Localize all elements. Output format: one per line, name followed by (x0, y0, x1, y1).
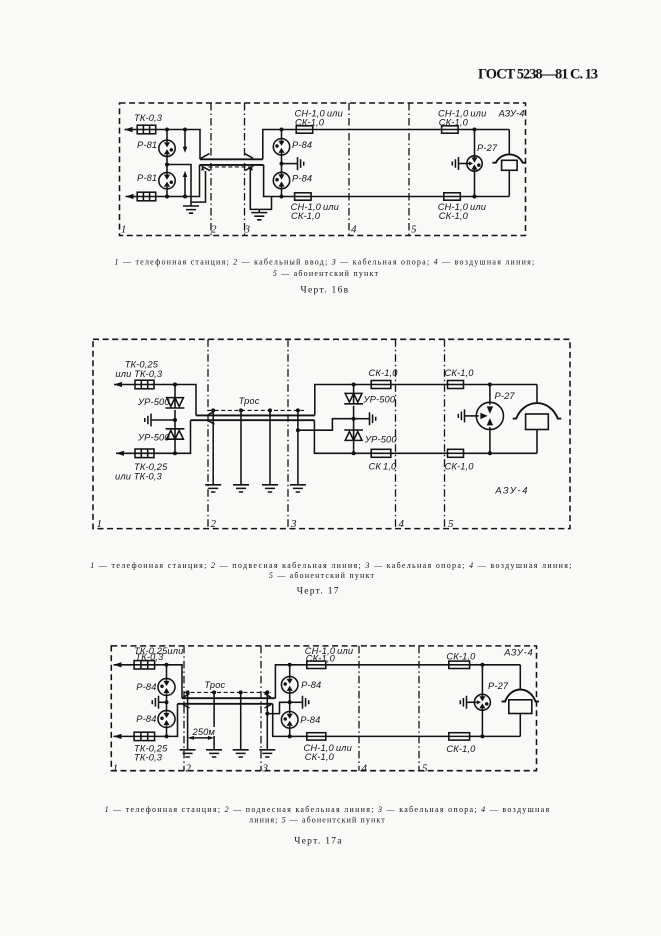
fuse СН-1,0/СК-1,0 (bottom, pole) (307, 733, 326, 740)
ground (pole, pointing right) (303, 696, 309, 709)
wire: conductor b drop to pole bottom wire (273, 704, 307, 737)
svg-text:Черт. 16в: Черт. 16в (301, 286, 350, 296)
fuse ТК-0,3 (top) (137, 125, 156, 134)
fuse СК-1,0 (top, subscriber) (448, 381, 464, 389)
node: pole bottom wire / Р-84 tap (288, 734, 292, 738)
fuse ТК-0,25/ТК-0,3 (bottom) (135, 449, 154, 458)
wire: overhead top wire (section 4) (391, 384, 448, 386)
node: top wire / Р-84 tap (280, 128, 284, 132)
diagram 1 section divider 2/3 (244, 103, 246, 236)
wire: overhead top wire (section 4) (326, 664, 449, 666)
svg-text:4: 4 (351, 224, 357, 236)
svg-text:СК-1,0: СК-1,0 (439, 211, 469, 221)
messenger suspension drop 1 (212, 410, 214, 484)
arrow stub down (to cable conductor) (184, 130, 186, 148)
cable conductor a (182, 697, 275, 699)
node: Р-84 midpoint (station) (165, 700, 169, 704)
cable sheath flare ticks, right end (245, 154, 254, 171)
svg-text:5: 5 (448, 518, 454, 530)
node: Р-84 midpoint (pole) (288, 700, 292, 704)
svg-text:Р-81: Р-81 (137, 140, 157, 150)
svg-text:Черт. 17: Черт. 17 (297, 587, 340, 597)
diagram 3 dashed boundary (sections 1-5) (111, 646, 536, 771)
cable conductor b (178, 703, 273, 705)
node: messenger hanger 3 (268, 408, 272, 412)
svg-text:СК-1,0: СК-1,0 (445, 462, 475, 472)
svg-text:4: 4 (399, 518, 405, 530)
svg-text:1 — телефонная станция; 2 — ка: 1 — телефонная станция; 2 — кабельный вв… (115, 258, 536, 267)
svg-text:СК-1,0: СК-1,0 (446, 652, 476, 662)
diagram 3 section divider 1/2 (183, 646, 185, 771)
arrester Р-27 (subscriber) (476, 402, 503, 429)
node: messenger hanger 4 (265, 690, 269, 694)
svg-text:СК-1,0: СК-1,0 (305, 752, 335, 762)
wire: conductor a rise to overhead top wire (263, 130, 297, 160)
telephone set (subscriber) (492, 154, 526, 162)
wire: bottom pair conductor, station side, with line arrow (116, 452, 135, 454)
fuse СН-1,0/СК-1,0 (top, pole) (296, 126, 313, 133)
node: pole top wire / УР-500 tap (352, 383, 356, 387)
node: top conductor / УР-500 tap (173, 383, 177, 387)
diagram 1 section divider 1/2 (210, 103, 212, 236)
wire: telephone set drop top (536, 385, 538, 404)
ground (drop 2) (233, 485, 249, 492)
wire: conductor b drop to overhead bottom wire (264, 165, 295, 197)
messenger suspension drop 4 (266, 692, 268, 749)
wire: УР-500 midpoint to earth (151, 419, 175, 421)
arrester Р-84 (upper, pole) (273, 139, 289, 155)
arrester УР-500 (pole, upper) (353, 385, 355, 394)
svg-text:Р-84: Р-84 (300, 715, 320, 725)
ground (Р-27, pointing left) (458, 409, 464, 422)
wire: arrester midpoint to earth (167, 165, 191, 207)
svg-text:ГОСТ 5238—81 С. 13: ГОСТ 5238—81 С. 13 (478, 67, 598, 83)
ground (cable sheath, pole side) (251, 213, 267, 220)
arrester УР-500 (upper) (174, 385, 176, 398)
wire: pole midpoint to earth bars (290, 701, 303, 703)
svg-text:Р-81: Р-81 (137, 173, 157, 183)
svg-text:ТК-0,25: ТК-0,25 (125, 360, 159, 370)
svg-text:УР-500: УР-500 (363, 395, 396, 405)
svg-text:Р-84: Р-84 (301, 680, 321, 690)
svg-text:Р-84: Р-84 (136, 714, 156, 724)
node: top wire / Р-27 tap (473, 128, 477, 132)
arrester Р-81 (lower) (159, 173, 175, 189)
node: bottom wire / Р-27 tap (488, 451, 492, 455)
wire: top pair conductor a, station side, with line arrow (125, 129, 138, 131)
node: bond to drop 4 (265, 712, 269, 716)
wire: top conductor to cable link (154, 385, 196, 416)
svg-text:АЗУ-4: АЗУ-4 (498, 109, 525, 119)
svg-text:Р-84: Р-84 (292, 174, 312, 184)
wire: conductor a rise to pole top wire (275, 665, 306, 698)
node: top conductor / Р-84 tap (165, 663, 169, 667)
node: midpoint of Р-84 pair (280, 162, 284, 166)
wire: bottom wire into subscriber unit (470, 735, 521, 737)
svg-text:3: 3 (244, 224, 251, 236)
ground (drop 2) (206, 750, 222, 757)
svg-text:Р-84: Р-84 (136, 682, 156, 692)
node: pole УР-500 midpoint (352, 417, 356, 421)
fuse СН-1,0/СК-1,0 (top, subscriber) (442, 126, 459, 133)
arrester Р-84 (station, lower) (158, 711, 175, 728)
dimension 250м between drops 1 and 2 (190, 737, 213, 739)
node: bottom conductor / Р-84 tap (165, 734, 169, 738)
fuse СК-1,0 (bottom, subscriber) (449, 733, 470, 740)
node: pole bottom wire / УР-500 tap (352, 451, 356, 455)
cable sheath flare ticks (209, 411, 215, 424)
svg-text:Р-27: Р-27 (495, 391, 516, 401)
svg-text:АЗУ-4: АЗУ-4 (494, 486, 529, 496)
svg-text:СК-1,0: СК-1,0 (439, 118, 469, 128)
svg-text:5: 5 (422, 763, 428, 775)
svg-text:УР-500: УР-500 (137, 433, 170, 443)
svg-text:или ТК-0,3: или ТК-0,3 (115, 369, 163, 379)
telephone set (subscriber) (502, 690, 539, 702)
arrester Р-84 (pole, lower) (281, 712, 298, 729)
wire: telephone set drop bottom (508, 170, 510, 196)
arrow stub up (to cable conductor) (184, 177, 186, 197)
svg-text:1: 1 (97, 518, 103, 530)
node: midpoint of Р-81 pair (165, 163, 169, 167)
svg-text:Р-27: Р-27 (477, 143, 498, 153)
cable sheath flare ticks (183, 694, 271, 708)
wire: bottom pair conductor, station side, with line arrow (114, 735, 135, 737)
wire: bottom wire into subscriber unit (464, 452, 538, 454)
wire: telephone set drop top (519, 665, 521, 690)
cable conductor b (191, 419, 315, 421)
wire: messenger bond to pole arrester midpoint (298, 419, 354, 431)
wire: top pair conductor, station side, with line arrow (114, 384, 135, 386)
fuse СК-1,0 (top, subscriber) (449, 661, 470, 668)
wire: bottom wire into subscriber unit (460, 196, 509, 198)
fuse ТК-0,25/ТК-0,3 (top) (135, 380, 154, 389)
ground (station, pointing left) (152, 696, 158, 709)
node: stub tap bottom (183, 195, 187, 199)
svg-text:4: 4 (362, 763, 368, 775)
diagram 2 section divider 2/3 (287, 339, 289, 528)
wire: bottom pair conductor b, station side, with line arrow (126, 196, 138, 198)
svg-text:УР-500: УР-500 (364, 435, 397, 445)
fuse СК-1,0 (bottom, subscriber) (448, 449, 464, 457)
arrester УР-500 (pole, lower) (353, 419, 355, 432)
arrester Р-84 (lower, pole) (273, 172, 289, 188)
diagram 1 section divider 4/5 (408, 103, 410, 236)
wire: top conductor to cable link (155, 665, 182, 698)
node: messenger hanger 1 (186, 690, 190, 694)
node: messenger hanger 1 (211, 408, 215, 412)
svg-text:или ТК-0,3: или ТК-0,3 (115, 472, 163, 482)
svg-text:3: 3 (290, 518, 297, 530)
svg-text:линия; 5 — абонентский пункт: линия; 5 — абонентский пункт (249, 816, 386, 825)
ground (pole arresters, pointing right) (298, 157, 304, 170)
diagram 2 section divider 1/2 (207, 339, 209, 528)
diagram 1 section divider 3/4 (348, 103, 350, 236)
svg-text:Трос: Трос (239, 396, 260, 406)
node: top wire / Р-27 tap (480, 663, 484, 667)
ground (pole, pointing right) (370, 412, 376, 425)
ground (drop 4) (290, 485, 306, 492)
svg-text:Черт. 17а: Черт. 17а (294, 837, 343, 847)
wire: top wire into subscriber unit (464, 384, 538, 386)
node: bottom wire / Р-27 tap (480, 734, 484, 738)
svg-text:СК-1,0: СК-1,0 (446, 744, 476, 754)
node: УР-500 midpoint (173, 418, 177, 422)
diagram 1 dashed boundary (sections 1-5) (120, 103, 526, 236)
node: bottom wire / Р-27 tap (473, 195, 477, 199)
svg-text:1 — телефонная станция; 2 — по: 1 — телефонная станция; 2 — подвесная ка… (90, 561, 573, 570)
wire: telephone set drop bottom (536, 430, 538, 454)
node: messenger bond tap (296, 428, 300, 432)
wire: overhead bottom wire (section 4) (326, 735, 449, 737)
wire: top wire into subscriber unit (458, 129, 509, 131)
ground (station cable entry, left) (183, 206, 199, 213)
cable conductor b (200, 164, 264, 166)
cable sheath flare ticks, left end (201, 154, 210, 171)
fuse СК-1,0 (bottom, pole) (371, 449, 391, 457)
svg-text:5: 5 (411, 224, 417, 236)
node: messenger hanger 3 (239, 690, 243, 694)
fuse СН-1,0/СК-1,0 (top, pole) (307, 661, 326, 668)
svg-text:5 — абонентский пункт: 5 — абонентский пункт (269, 571, 375, 580)
diagram 2 dashed boundary (sections 1-5) (93, 339, 570, 528)
ground (drop 4) (259, 750, 275, 757)
diagram 3 section divider 4/5 (418, 646, 420, 771)
wire: top wire into subscriber unit (470, 664, 521, 666)
messenger suspension drop 3 (240, 692, 242, 749)
svg-text:СК-1,0: СК-1,0 (306, 653, 336, 663)
wire: bottom conductor from fuse to cable entry (156, 165, 200, 197)
wire: Р-27 to earth (459, 163, 467, 165)
telephone set (subscriber) (513, 403, 562, 419)
svg-text:Р-84: Р-84 (292, 140, 312, 150)
wire: top pair conductor, station side, with line arrow (114, 664, 135, 666)
arrester Р-84 (pole, upper) (281, 677, 298, 694)
fuse СН-1,0/СК-1,0 (bottom, pole) (295, 193, 312, 200)
node: messenger hanger 2 (212, 690, 216, 694)
wire: midpoint to earth (159, 701, 167, 703)
arrester Р-84 (station, upper) (158, 679, 175, 696)
fuse ТК-0,25/ТК-0,3 (bottom) (134, 732, 155, 740)
wire: pole midpoint to earth (354, 418, 370, 420)
ground (Р-27, pointing left) (460, 696, 466, 709)
svg-text:2: 2 (211, 518, 217, 530)
wire: Р-27 to earth (467, 701, 475, 703)
svg-text:1 — телефонная станция; 2 — по: 1 — телефонная станция; 2 — подвесная ка… (105, 805, 551, 814)
wire: conductor a rise to pole top wire (315, 385, 371, 416)
wire: bottom conductor to cable link (154, 420, 191, 453)
node: bottom wire / Р-84 tap (280, 195, 284, 199)
svg-text:2: 2 (186, 763, 192, 775)
svg-text:СК-1,0: СК-1,0 (445, 368, 475, 378)
svg-text:ТК-0,25: ТК-0,25 (134, 462, 168, 472)
messenger suspension drop 2 (213, 692, 215, 749)
messenger suspension drop 2 (240, 410, 242, 484)
wire: overhead line top (section 4) (313, 129, 442, 131)
arrester Р-27 (subscriber) (467, 156, 482, 171)
wire: overhead line bottom (section 4) (311, 196, 444, 198)
wire: pole midpoint bond to messenger drop (267, 702, 289, 713)
node: pole top wire / Р-84 tap (288, 663, 292, 667)
diagram 2 section divider 3/4 (395, 339, 397, 528)
wire: overhead bottom wire (section 4) (391, 452, 448, 454)
wire: conductor b drop to pole bottom wire (314, 420, 371, 453)
node: bottom conductor / arrester tap (165, 195, 169, 199)
svg-text:АЗУ-4: АЗУ-4 (503, 648, 533, 658)
svg-text:СК-1,0: СК-1,0 (369, 368, 399, 378)
svg-text:УР-500: УР-500 (137, 397, 170, 407)
wire: telephone set drop top (508, 130, 510, 155)
svg-text:Трос: Трос (204, 680, 225, 690)
svg-text:Р-27: Р-27 (488, 681, 509, 691)
svg-text:СК 1,0: СК 1,0 (369, 462, 398, 472)
node: messenger hanger 2 (239, 408, 243, 412)
wire: Р-27 to earth (465, 415, 477, 417)
node: stub tap top (183, 128, 187, 132)
suspended cable: messenger wire Трос (dashed) (184, 691, 271, 693)
ground (Р-27, pointing left) (452, 157, 458, 170)
arrester Р-81 (upper) (159, 140, 175, 156)
cable conductor a (196, 414, 315, 416)
ground (station, pointing left) (145, 414, 151, 427)
svg-text:1: 1 (113, 763, 119, 775)
wire: top conductor from fuse to cable entry (156, 130, 200, 160)
fuse СК-1,0 (top, pole) (371, 381, 391, 389)
fuse ТК-0,3 (bottom) (137, 192, 156, 201)
diagram 2 section divider 4/5 (444, 339, 446, 528)
svg-text:2: 2 (211, 224, 217, 236)
wire: Р-84 midpoint to earth bars (282, 163, 298, 165)
wire: bottom conductor to cable link (155, 704, 178, 737)
ground (drop 3) (233, 750, 249, 757)
svg-text:3: 3 (262, 763, 269, 775)
messenger suspension drop 4 (297, 410, 299, 484)
node: top wire / Р-27 tap (488, 383, 492, 387)
ground (drop 3) (262, 485, 278, 492)
svg-text:СК-1,0: СК-1,0 (291, 211, 321, 221)
wire: telephone set drop bottom (519, 714, 521, 737)
node: top conductor / arrester tap (165, 128, 169, 132)
wire: cable sheath bond to earth (station side) (191, 171, 206, 202)
suspended cable: messenger wire Трос (dashed) (208, 409, 304, 411)
cable sheath (dashed) along pair (209, 166, 251, 168)
node: bottom conductor / УР-500 tap (173, 451, 177, 455)
arrester УР-500 (lower) (174, 420, 176, 430)
ground (drop 1) (180, 750, 196, 757)
dimension label 250м (190, 727, 216, 736)
messenger suspension drop 1 (187, 692, 189, 749)
diagram 3 section divider 2/3 (260, 646, 262, 771)
node: messenger hanger 4 (296, 408, 300, 412)
svg-text:5 — абонентский пункт: 5 — абонентский пункт (273, 269, 379, 278)
fuse ТК-0,25/ТК-0,3 (top) (134, 661, 155, 669)
wire: cable sheath to earth (right of pole) (250, 167, 271, 213)
svg-text:ТК-0,3: ТК-0,3 (134, 113, 163, 123)
diagram 3 section divider 3/4 (358, 646, 360, 771)
svg-text:250м: 250м (192, 727, 216, 737)
ground (drop 1) (205, 485, 221, 492)
fuse СН-1,0/СК-1,0 (bottom, subscriber) (444, 193, 461, 200)
arrester Р-27 (subscriber) (474, 694, 490, 710)
svg-text:СК-1,0: СК-1,0 (295, 118, 325, 128)
svg-text:1: 1 (121, 224, 127, 236)
svg-text:ТК-0,3: ТК-0,3 (134, 753, 163, 763)
cable (section 2): sheathed pair, conductor a (200, 158, 263, 160)
messenger suspension drop 3 (269, 410, 271, 484)
